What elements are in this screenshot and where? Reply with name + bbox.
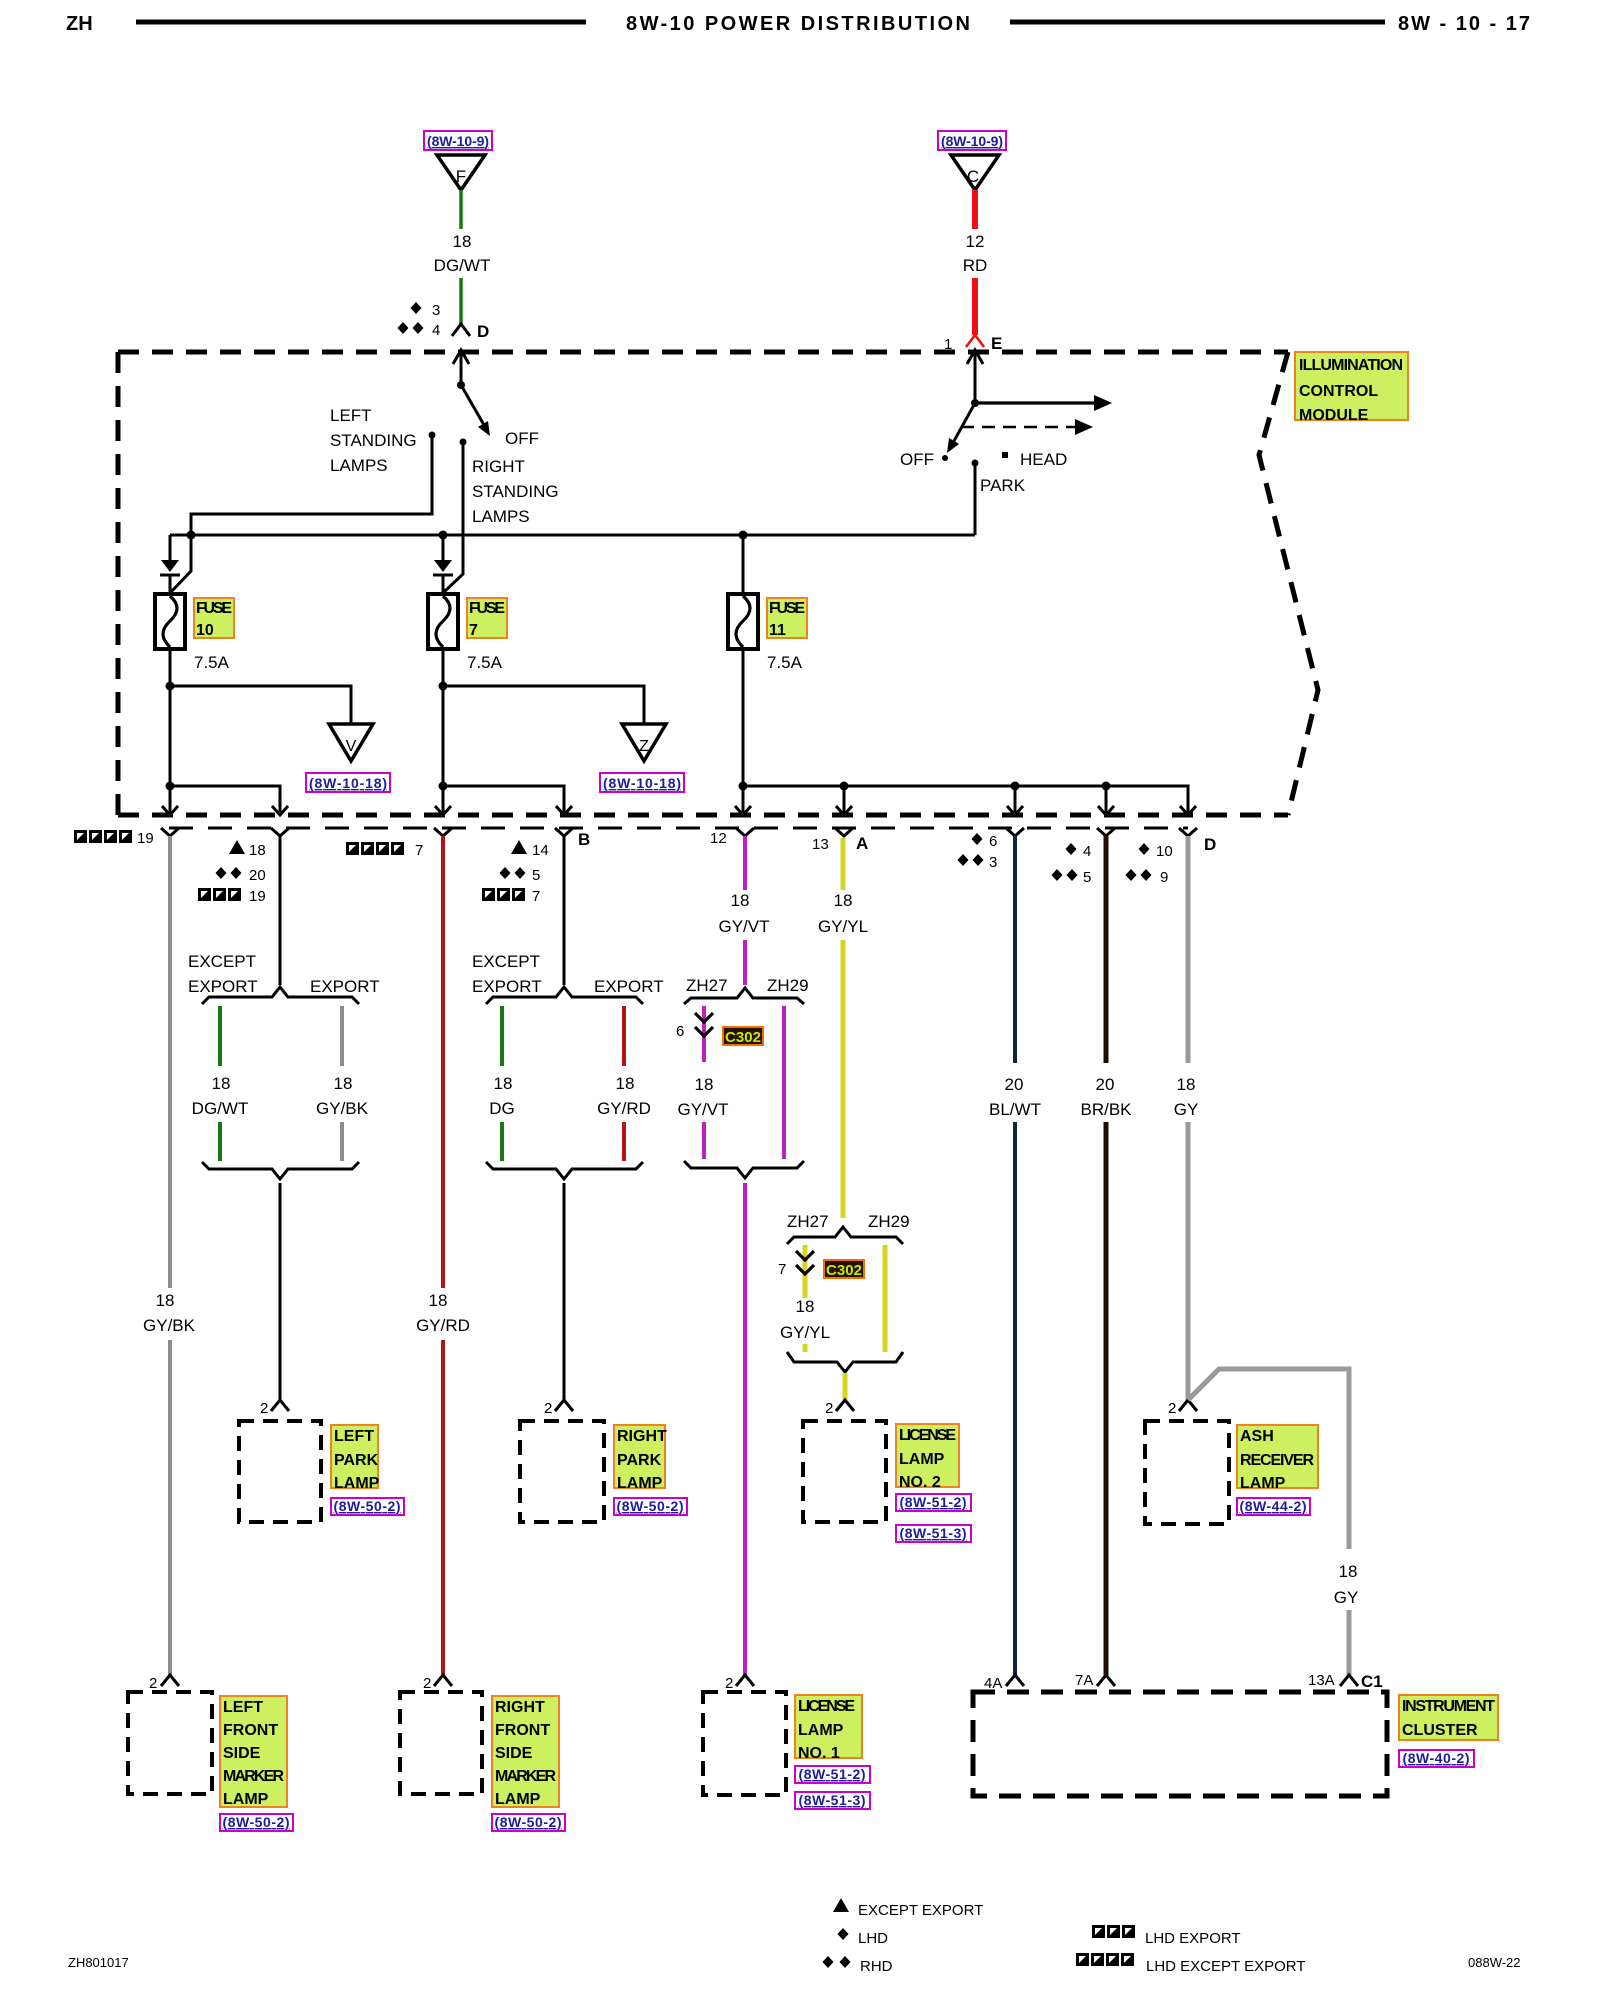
svg-text:GY/BK: GY/BK bbox=[143, 1316, 196, 1335]
svg-text:FRONT: FRONT bbox=[495, 1722, 550, 1739]
svg-text:EXCEPT: EXCEPT bbox=[188, 952, 256, 971]
wire fuse 11 output bbox=[742, 648, 745, 786]
wire 12 RD from C (upper segment) bbox=[972, 190, 978, 229]
symbol LHD diamond pin 6 bbox=[972, 833, 998, 850]
wire 18 GY/RD column lower bbox=[441, 1340, 445, 1675]
svg-text:RD: RD bbox=[963, 256, 988, 275]
svg-text:18: 18 bbox=[494, 1074, 513, 1093]
fuse 11 bbox=[728, 594, 758, 649]
junction node bus / left standing wire bbox=[187, 531, 196, 540]
svg-text:GY: GY bbox=[1174, 1100, 1199, 1119]
svg-text:LHD EXCEPT EXPORT: LHD EXCEPT EXPORT bbox=[1146, 1958, 1306, 1975]
svg-text:LHD: LHD bbox=[858, 1930, 888, 1947]
instrument cluster box bbox=[973, 1692, 1387, 1796]
svg-text:18: 18 bbox=[429, 1291, 448, 1310]
svg-text:LHD EXPORT: LHD EXPORT bbox=[1145, 1930, 1241, 1947]
svg-text:FRONT: FRONT bbox=[223, 1722, 278, 1739]
svg-text:8W - 10 - 17: 8W - 10 - 17 bbox=[1398, 13, 1530, 35]
contact left standing lamps bbox=[429, 432, 436, 439]
junction at pin 6/3 bbox=[1011, 782, 1020, 791]
svg-text:2: 2 bbox=[544, 1400, 552, 1417]
label RIGHT STANDING LAMPS bbox=[472, 457, 559, 526]
svg-text:(8W-10-9): (8W-10-9) bbox=[427, 133, 489, 149]
svg-text:C1: C1 bbox=[1361, 1672, 1383, 1691]
ref link (8W-50-2) right marker bbox=[492, 1814, 565, 1831]
svg-text:V: V bbox=[346, 738, 357, 755]
fork at right front side marker lamp, pin 2 bbox=[423, 1675, 452, 1692]
svg-text:D: D bbox=[1204, 835, 1216, 854]
svg-text:14: 14 bbox=[532, 842, 549, 859]
fork at license lamp no.1, pin 2 bbox=[725, 1675, 754, 1692]
wire 20 BR/BK column upper bbox=[1104, 836, 1109, 1063]
svg-text:20: 20 bbox=[1096, 1075, 1115, 1094]
svg-text:RIGHT: RIGHT bbox=[495, 1699, 545, 1716]
svg-text:C302: C302 bbox=[725, 1029, 761, 1046]
symbol RHD diamonds, pin 4 bbox=[398, 322, 441, 339]
svg-text:LICENSE: LICENSE bbox=[798, 1698, 855, 1715]
fork pin 6/3 bbox=[1006, 828, 1024, 836]
svg-text:7: 7 bbox=[532, 888, 540, 905]
label C302 (GY/YL) bbox=[824, 1260, 864, 1279]
fork at left park lamp, pin 2 bbox=[260, 1400, 289, 1417]
svg-text:7: 7 bbox=[778, 1261, 786, 1278]
brace split ZH27/ZH29 (GY/VT) bbox=[684, 988, 804, 1004]
svg-text:2: 2 bbox=[1168, 1400, 1176, 1417]
svg-text:MARKER: MARKER bbox=[495, 1768, 556, 1785]
switch pivot node at E bbox=[971, 399, 979, 407]
svg-text:(8W-10-18): (8W-10-18) bbox=[309, 775, 387, 791]
wire from left standing lamps contact to fuse 10 bbox=[171, 435, 432, 592]
wire PARK feed bus bbox=[170, 463, 975, 535]
svg-text:2: 2 bbox=[725, 1675, 733, 1692]
svg-text:18: 18 bbox=[453, 232, 472, 251]
pin arrow down (13/A) bbox=[836, 786, 852, 815]
wire 18 GY column lower bbox=[1186, 1122, 1191, 1400]
svg-text:EXPORT: EXPORT bbox=[310, 977, 380, 996]
pin D arrow into module bbox=[453, 350, 469, 385]
svg-text:18: 18 bbox=[1339, 1562, 1358, 1581]
junction node bus / fuse 11 bbox=[739, 531, 748, 540]
fuse 10 bbox=[155, 594, 185, 649]
wire 18 DG branch bbox=[500, 1006, 504, 1066]
wire branch to connector Z bbox=[443, 686, 644, 724]
symbol RHD diamonds pin 5 bbox=[500, 867, 541, 884]
svg-text:12: 12 bbox=[966, 232, 985, 251]
fork pin 12 bbox=[736, 828, 754, 836]
legend RHD bbox=[823, 1956, 893, 1975]
ash receiver lamp box bbox=[1145, 1421, 1229, 1524]
fork at ash receiver lamp, pin 2 bbox=[1168, 1400, 1197, 1417]
illumination control module dashed border left bbox=[116, 352, 121, 815]
svg-text:2: 2 bbox=[825, 1400, 833, 1417]
symbol RHD diamonds pin 3 bbox=[958, 854, 998, 871]
wire 18 GY/RD branch bbox=[622, 1006, 626, 1066]
wire fuse 7 output bbox=[442, 648, 445, 786]
legend LHD bbox=[838, 1928, 889, 1947]
fork pin 10/9/D bbox=[1179, 828, 1197, 836]
wire 18 GY/BK left column lower bbox=[168, 1340, 172, 1675]
svg-text:E: E bbox=[991, 334, 1002, 353]
svg-text:18: 18 bbox=[334, 1074, 353, 1093]
svg-text:(8W-51-2): (8W-51-2) bbox=[900, 1494, 967, 1510]
connector fork at module pin E (red) bbox=[966, 335, 984, 347]
wire GY/VT ZH29 branch bbox=[782, 1006, 786, 1159]
svg-text:PARK: PARK bbox=[334, 1452, 379, 1469]
brace split right park lamp bbox=[486, 987, 643, 1004]
svg-text:LAMP: LAMP bbox=[495, 1791, 541, 1808]
svg-text:GY/YL: GY/YL bbox=[780, 1323, 830, 1342]
svg-text:EXPORT: EXPORT bbox=[188, 977, 258, 996]
right park lamp box bbox=[520, 1421, 604, 1522]
svg-text:11: 11 bbox=[769, 622, 786, 639]
svg-text:5: 5 bbox=[532, 867, 540, 884]
svg-text:Z: Z bbox=[639, 738, 649, 755]
brace merge ZH27/ZH29 (GY/VT) bbox=[684, 1161, 804, 1178]
pin arrow down (fuse 7 col) bbox=[435, 786, 451, 815]
left front side marker lamp box bbox=[128, 1692, 212, 1794]
svg-text:LEFT: LEFT bbox=[330, 406, 372, 425]
svg-text:(8W-50-2): (8W-50-2) bbox=[617, 1498, 684, 1514]
svg-text:18: 18 bbox=[1177, 1075, 1196, 1094]
svg-text:7.5A: 7.5A bbox=[194, 653, 230, 672]
connector F (triangle) bbox=[437, 155, 485, 190]
label INSTRUMENT CLUSTER bbox=[1399, 1695, 1498, 1740]
brace merge left park lamp bbox=[202, 1162, 359, 1179]
wire bus to fuse 11 bbox=[742, 535, 745, 594]
wire bus to diode of fuse 7 bbox=[442, 535, 445, 560]
fork at instrument cluster, pin 13A bbox=[1308, 1672, 1358, 1689]
legend LHD EXPORT bbox=[1092, 1925, 1241, 1947]
svg-text:18: 18 bbox=[616, 1074, 635, 1093]
junction fuse 10 branch to pin row bbox=[166, 782, 175, 791]
label EXCEPT EXPORT (right group) bbox=[472, 952, 542, 996]
diode above fuse 7 bbox=[433, 560, 453, 594]
label LEFT STANDING LAMPS bbox=[330, 406, 417, 475]
ref link (8W-50-2) left park lamp bbox=[331, 1498, 404, 1515]
svg-text:GY/VT: GY/VT bbox=[718, 917, 769, 936]
svg-text:7.5A: 7.5A bbox=[467, 653, 503, 672]
wire GY/YL ZH27 branch lower bbox=[803, 1344, 808, 1352]
switch arm from E to OFF bbox=[947, 403, 975, 453]
ref link (8W-44-2) ash receiver lamp bbox=[1237, 1498, 1310, 1515]
svg-text:ZH27: ZH27 bbox=[686, 976, 728, 995]
label LICENSE LAMP NO. 2 bbox=[896, 1424, 959, 1491]
svg-text:(8W-40-2): (8W-40-2) bbox=[1403, 1750, 1470, 1766]
svg-text:EXCEPT: EXCEPT bbox=[472, 952, 540, 971]
symbol except-export triangle pin 18 bbox=[229, 840, 266, 859]
wire 18 GY/BK branch lower bbox=[340, 1122, 344, 1161]
wire to left park lamp bbox=[279, 1183, 282, 1400]
wire to right park lamp bbox=[563, 1183, 566, 1400]
svg-text:12: 12 bbox=[710, 830, 727, 847]
symbol RHD diamonds pin 5 (right) bbox=[1052, 869, 1092, 886]
fork pin 7 (fuse 7 col) bbox=[434, 828, 452, 836]
fork at right park lamp, pin 2 bbox=[544, 1400, 573, 1417]
wire 18 GY/VT column upper bbox=[743, 836, 747, 890]
wire fuse 11 output bus bbox=[743, 786, 1188, 812]
wire GY/YL ZH29 branch bbox=[883, 1245, 888, 1352]
connector fork at module pin D bbox=[452, 324, 470, 336]
wire GY/VT ZH27 branch lower bbox=[702, 1122, 706, 1159]
svg-text:FUSE: FUSE bbox=[769, 600, 805, 617]
svg-text:GY/RD: GY/RD bbox=[416, 1316, 470, 1335]
pin E arrow into module bbox=[967, 350, 983, 403]
svg-text:LEFT: LEFT bbox=[334, 1428, 374, 1445]
connector C302 chevrons (GY/YL), pin 7 bbox=[778, 1251, 814, 1278]
svg-text:7: 7 bbox=[469, 622, 478, 639]
brace merge right park lamp bbox=[486, 1162, 643, 1179]
svg-text:10: 10 bbox=[1156, 843, 1173, 860]
svg-text:18: 18 bbox=[156, 1291, 175, 1310]
header rule right bbox=[1010, 20, 1385, 25]
symbols LHD-EXCEPT-EXPORT squares, pin 7 bbox=[346, 842, 423, 859]
wire 18 GY branch lower bbox=[1347, 1610, 1352, 1675]
ref link (8W-10-18) for V bbox=[306, 773, 390, 792]
svg-text:STANDING: STANDING bbox=[330, 431, 417, 450]
svg-text:LAMP: LAMP bbox=[334, 1475, 380, 1492]
svg-text:088W-22: 088W-22 bbox=[1468, 1955, 1521, 1970]
fork pin B bbox=[555, 828, 573, 836]
fork pin 19 bbox=[161, 828, 179, 836]
svg-text:C: C bbox=[967, 167, 979, 186]
ref link (8W-51-3) license lamp no.1 bbox=[795, 1792, 870, 1809]
fuse 7 bbox=[428, 594, 458, 649]
ref link (8W-10-9) for connector C bbox=[938, 131, 1006, 150]
svg-text:A: A bbox=[856, 834, 868, 853]
svg-text:RECEIVER: RECEIVER bbox=[1240, 1452, 1314, 1469]
connector dashed link line below module bbox=[169, 827, 1188, 830]
wire 18 DG/WT from F (upper segment) bbox=[459, 190, 463, 229]
svg-text:(8W-10-18): (8W-10-18) bbox=[603, 775, 681, 791]
svg-text:GY/BK: GY/BK bbox=[316, 1099, 369, 1118]
switch direction arrow dashed bbox=[961, 419, 1093, 435]
pin arrow down (18/20/19) bbox=[272, 806, 288, 815]
wire from right standing lamps contact to fuse 7 bbox=[444, 442, 463, 592]
junction fuse 7 output to Z bbox=[439, 682, 448, 691]
svg-text:6: 6 bbox=[989, 833, 997, 850]
svg-text:PARK: PARK bbox=[617, 1452, 662, 1469]
license lamp no.2 box bbox=[803, 1421, 886, 1522]
svg-text:CLUSTER: CLUSTER bbox=[1402, 1722, 1478, 1739]
svg-text:EXPORT: EXPORT bbox=[594, 977, 664, 996]
fork at instrument cluster, pin 7A bbox=[1075, 1672, 1115, 1689]
fork pin 13/A bbox=[835, 828, 853, 836]
svg-text:ILLUMINATION: ILLUMINATION bbox=[1299, 357, 1403, 374]
svg-text:ZH27: ZH27 bbox=[787, 1212, 829, 1231]
brace split left park lamp bbox=[202, 987, 359, 1004]
svg-text:18: 18 bbox=[212, 1074, 231, 1093]
svg-text:GY: GY bbox=[1334, 1588, 1359, 1607]
illumination control module dashed border top bbox=[118, 350, 1288, 355]
symbol RHD diamonds pin 20 bbox=[216, 867, 266, 884]
svg-text:7.5A: 7.5A bbox=[767, 653, 803, 672]
connector V (triangle) bbox=[329, 724, 373, 761]
junction at pin 4/5 bbox=[1102, 782, 1111, 791]
svg-text:(8W-51-2): (8W-51-2) bbox=[799, 1766, 866, 1782]
svg-text:LEFT: LEFT bbox=[223, 1699, 263, 1716]
svg-text:4A: 4A bbox=[984, 1675, 1002, 1692]
svg-text:DG: DG bbox=[489, 1099, 515, 1118]
svg-text:ZH29: ZH29 bbox=[767, 976, 809, 995]
junction fuse 11 output bus bbox=[739, 782, 748, 791]
svg-text:ZH29: ZH29 bbox=[868, 1212, 910, 1231]
symbol except-export triangle pin 14 bbox=[511, 840, 549, 859]
svg-text:LICENSE: LICENSE bbox=[899, 1427, 956, 1444]
svg-text:B: B bbox=[578, 830, 590, 849]
svg-text:LAMP: LAMP bbox=[223, 1791, 269, 1808]
fork at license lamp no.2, pin 2 bbox=[825, 1400, 854, 1417]
label FUSE 7 bbox=[467, 598, 507, 639]
svg-text:SIDE: SIDE bbox=[495, 1745, 533, 1762]
svg-text:8W-10 POWER DISTRIBUTION: 8W-10 POWER DISTRIBUTION bbox=[626, 13, 970, 35]
svg-text:NO. 2: NO. 2 bbox=[899, 1474, 941, 1491]
switch direction arrow solid bbox=[975, 395, 1112, 411]
fork pin 18/20/19 bbox=[271, 828, 289, 836]
header rule left bbox=[136, 20, 586, 25]
svg-text:EXCEPT EXPORT: EXCEPT EXPORT bbox=[858, 1902, 983, 1919]
connector Z (triangle) bbox=[622, 724, 666, 761]
symbol RHD diamonds pin 9 bbox=[1126, 869, 1169, 886]
svg-text:(8W-50-2): (8W-50-2) bbox=[334, 1498, 401, 1514]
svg-text:2: 2 bbox=[423, 1675, 431, 1692]
svg-text:ZH: ZH bbox=[66, 13, 93, 35]
fork at left front side marker lamp, pin 2 bbox=[149, 1675, 179, 1692]
illumination control module dashed border bottom bbox=[118, 813, 1288, 818]
label ILLUMINATION CONTROL MODULE bbox=[1295, 352, 1408, 424]
svg-text:EXPORT: EXPORT bbox=[472, 977, 542, 996]
ref link (8W-50-2) right park lamp bbox=[614, 1498, 687, 1515]
svg-text:2: 2 bbox=[149, 1675, 157, 1692]
junction fuse 7 branch to pin row bbox=[439, 782, 448, 791]
contact OFF (headlamp switch) bbox=[942, 455, 948, 461]
symbols LHD-EXCEPT-EXPORT squares, pin 19 bbox=[74, 830, 154, 847]
wire bus to diode of fuse 10 bbox=[169, 535, 172, 560]
svg-text:C302: C302 bbox=[826, 1262, 862, 1279]
contact HEAD bbox=[1002, 452, 1008, 458]
svg-text:BL/WT: BL/WT bbox=[989, 1100, 1041, 1119]
junction at pin 13/A bbox=[840, 782, 849, 791]
wire to left park lamp brace bbox=[279, 836, 282, 985]
switch arm from D to OFF bbox=[461, 385, 490, 436]
svg-text:OFF: OFF bbox=[505, 429, 539, 448]
fork at instrument cluster, pin 4A bbox=[984, 1675, 1024, 1692]
switch pivot node at D bbox=[457, 381, 465, 389]
diode above fuse 10 bbox=[160, 560, 180, 594]
svg-text:LAMP: LAMP bbox=[1240, 1475, 1286, 1492]
svg-text:GY/VT: GY/VT bbox=[677, 1100, 728, 1119]
ref link (8W-10-9) for connector F bbox=[424, 131, 492, 150]
wire branch to second pin bbox=[170, 786, 280, 812]
junction fuse 10 output to V bbox=[166, 682, 175, 691]
svg-text:BR/BK: BR/BK bbox=[1080, 1100, 1132, 1119]
wire 18 GY branch to instrument cluster bbox=[1188, 1369, 1349, 1549]
label ASH RECEIVER LAMP bbox=[1237, 1425, 1318, 1492]
svg-text:FUSE: FUSE bbox=[196, 600, 232, 617]
wire 18 GY column upper bbox=[1186, 836, 1191, 1063]
ref link (8W-50-2) left marker bbox=[220, 1814, 293, 1831]
svg-text:13: 13 bbox=[812, 836, 829, 853]
wire 20 BL/WT column lower bbox=[1013, 1122, 1017, 1675]
symbol LHD diamond pin 10 bbox=[1139, 843, 1173, 860]
wire 18 GY/VT to license lamp no.1 bbox=[743, 1183, 747, 1675]
symbol LHD-export squares pin 19 bbox=[198, 888, 266, 905]
wire 20 BL/WT column upper bbox=[1013, 836, 1017, 1063]
pin arrow down (pin B) bbox=[556, 806, 572, 815]
svg-text:18: 18 bbox=[834, 891, 853, 910]
svg-text:SIDE: SIDE bbox=[223, 1745, 261, 1762]
pin arrow down (19) bbox=[162, 786, 178, 815]
pin arrow down (6/3) bbox=[1007, 786, 1023, 815]
legend except export bbox=[833, 1898, 983, 1919]
svg-text:NO. 1: NO. 1 bbox=[798, 1745, 840, 1762]
pin arrow down (10/9/D) bbox=[1180, 806, 1196, 815]
legend LHD EXCEPT EXPORT bbox=[1076, 1953, 1306, 1975]
wire 18 GY/YL column upper bbox=[841, 838, 846, 890]
ref link (8W-51-2) license lamp no.1 bbox=[795, 1766, 870, 1783]
svg-text:(8W-50-2): (8W-50-2) bbox=[495, 1814, 562, 1830]
svg-text:DG/WT: DG/WT bbox=[192, 1099, 249, 1118]
label RIGHT FRONT SIDE MARKER LAMP bbox=[492, 1696, 559, 1808]
svg-text:(8W-10-9): (8W-10-9) bbox=[941, 133, 1003, 149]
label FUSE 10 bbox=[194, 598, 234, 639]
svg-text:20: 20 bbox=[249, 867, 266, 884]
svg-text:19: 19 bbox=[249, 888, 266, 905]
wire 12 RD from C (lower segment) bbox=[972, 278, 978, 335]
ref link (8W-10-18) for Z bbox=[600, 773, 684, 792]
label LEFT PARK LAMP bbox=[331, 1425, 380, 1492]
svg-text:7: 7 bbox=[415, 842, 423, 859]
svg-text:INSTRUMENT: INSTRUMENT bbox=[1402, 1698, 1495, 1715]
svg-text:RIGHT: RIGHT bbox=[472, 457, 525, 476]
wire branch to connector V bbox=[170, 686, 351, 724]
svg-text:7A: 7A bbox=[1075, 1672, 1093, 1689]
brace split ZH27/ZH29 (GY/YL) bbox=[787, 1227, 903, 1244]
ref link (8W-51-3) license lamp no.2 bbox=[896, 1525, 971, 1542]
svg-text:GY/RD: GY/RD bbox=[597, 1099, 651, 1118]
svg-text:18: 18 bbox=[249, 842, 266, 859]
svg-text:RIGHT: RIGHT bbox=[617, 1428, 667, 1445]
wire GY/VT ZH27 branch bbox=[702, 1006, 706, 1062]
svg-text:3: 3 bbox=[989, 854, 997, 871]
label RIGHT PARK LAMP bbox=[614, 1425, 667, 1492]
svg-text:OFF: OFF bbox=[900, 450, 934, 469]
contact right standing lamps bbox=[460, 439, 467, 446]
svg-text:18: 18 bbox=[695, 1075, 714, 1094]
svg-text:2: 2 bbox=[260, 1400, 268, 1417]
svg-text:LAMP: LAMP bbox=[617, 1475, 663, 1492]
svg-text:(8W-51-3): (8W-51-3) bbox=[799, 1792, 866, 1808]
svg-text:RHD: RHD bbox=[860, 1958, 893, 1975]
svg-text:ASH: ASH bbox=[1240, 1428, 1274, 1445]
svg-text:13A: 13A bbox=[1308, 1672, 1335, 1689]
wire GY/YL ZH27 branch bbox=[803, 1245, 808, 1298]
svg-text:LAMPS: LAMPS bbox=[330, 456, 388, 475]
connector C302 chevrons (GY/VT), pin 6 bbox=[676, 1013, 713, 1040]
wire 18 GY/YL to license lamp no.2 bbox=[843, 1373, 848, 1400]
svg-text:(8W-44-2): (8W-44-2) bbox=[1240, 1498, 1307, 1514]
left park lamp box bbox=[239, 1421, 321, 1522]
svg-text:GY/YL: GY/YL bbox=[818, 917, 868, 936]
ref link (8W-51-2) license lamp no.2 bbox=[896, 1494, 971, 1511]
label EXCEPT EXPORT (left group) bbox=[188, 952, 258, 996]
fork pin 4/5 bbox=[1097, 828, 1115, 836]
wire 18 DG/WT branch lower bbox=[218, 1122, 222, 1161]
wire 18 GY/RD column upper bbox=[441, 836, 445, 1288]
svg-text:(8W-50-2): (8W-50-2) bbox=[223, 1814, 290, 1830]
pin arrow down (4/5) bbox=[1098, 786, 1114, 815]
svg-text:MODULE: MODULE bbox=[1299, 407, 1369, 424]
svg-text:HEAD: HEAD bbox=[1020, 450, 1067, 469]
